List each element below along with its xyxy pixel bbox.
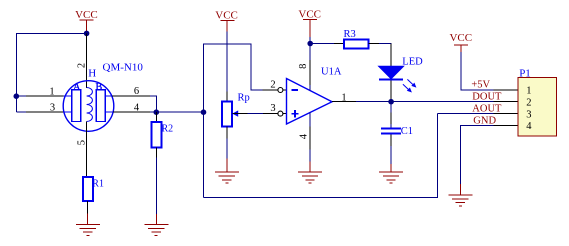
wire AOUT to P1: [438, 113, 494, 115]
resistor R3 left pin: [334, 43, 344, 45]
svg-text:AOUT: AOUT: [472, 104, 502, 115]
wire VCC to left column: [16, 33, 86, 112]
op-amp U1A pin 8: [309, 60, 311, 85]
sensor body circle: [63, 81, 114, 132]
sensor QM-N10 pin 5 (heater bottom): [86, 122, 88, 178]
svg-text:DOUT: DOUT: [472, 91, 502, 102]
ground (P1): [449, 195, 473, 206]
resistor R2: [152, 122, 162, 147]
pin 3 dot symbol: [278, 111, 283, 116]
resistor R2 bottom pin: [155, 148, 157, 158]
svg-text:+5V: +5V: [471, 80, 490, 91]
svg-text:VCC: VCC: [298, 8, 321, 20]
svg-text:R3: R3: [344, 29, 356, 40]
ground (R1): [76, 225, 100, 236]
potentiometer Rp wiper arrow: [232, 110, 238, 116]
svg-text:P1: P1: [519, 68, 531, 80]
resistor R1 bottom pin: [87, 201, 89, 214]
connector P1 pin 4 (GND): [494, 124, 519, 126]
resistor R1: [83, 177, 93, 201]
wire junction to comparator column: [156, 111, 203, 113]
connector P1 pin 3 (AOUT): [494, 113, 519, 115]
wire VCC to +5V pin: [461, 52, 494, 90]
LED body: [379, 66, 404, 79]
LED anode pin: [390, 44, 392, 67]
svg-text:U1A: U1A: [321, 67, 342, 78]
svg-text:A: A: [73, 82, 81, 93]
sensor electrode plate A: [72, 90, 81, 122]
wire pin6 to junction: [150, 96, 156, 112]
power port VCC (Rp): [215, 10, 238, 32]
svg-text:1: 1: [49, 86, 54, 97]
LED cathode bar: [379, 79, 403, 81]
svg-text:3: 3: [526, 109, 531, 120]
svg-text:C1: C1: [401, 126, 413, 137]
potentiometer Rp wiper pin: [233, 113, 248, 115]
wire wiper to op-amp: [248, 113, 263, 115]
svg-text:5: 5: [76, 140, 87, 145]
power port VCC (sensor, top-left): [75, 9, 98, 33]
resistor R3 right pin: [369, 43, 379, 45]
wire Rp to ground: [226, 139, 228, 159]
svg-text:4: 4: [134, 102, 140, 113]
ground stem (C1): [390, 164, 392, 172]
wire GND pin to ground: [461, 125, 494, 184]
LED cathode pin: [390, 81, 392, 102]
sensor QM-N10 pin 6: [105, 95, 113, 97]
wire pin4 to ground: [309, 150, 311, 162]
svg-text:VCC: VCC: [449, 32, 472, 44]
ground (op-amp): [298, 172, 322, 183]
op-amp U1A pin 1 (output): [332, 101, 356, 103]
node: junction VCC / R3 / pin 8: [307, 41, 313, 47]
wire R3 to LED: [379, 43, 392, 45]
wire VCC down to Rp: [226, 32, 228, 92]
wire C1 to ground: [390, 146, 392, 164]
minus sign: [292, 89, 299, 91]
svg-text:VCC: VCC: [75, 9, 98, 21]
node: VCC junction over sensor: [84, 31, 90, 37]
sensor QM-N10 pin 3: [26, 111, 64, 113]
resistor R3: [344, 40, 369, 49]
op-amp U1A pin 2 (inverting input): [263, 89, 279, 91]
svg-text:R2: R2: [162, 124, 174, 135]
sensor QM-N10 pin 4: [105, 111, 113, 113]
connector P1 pin 2 (DOUT): [494, 101, 519, 103]
potentiometer Rp bottom pin: [226, 127, 228, 139]
svg-text:6: 6: [134, 86, 139, 97]
power port VCC (op-amp): [298, 8, 321, 37]
capacitor C1 bottom pin: [390, 135, 392, 147]
wire horizontal feedback rail: [204, 44, 263, 198]
plus sign: [291, 113, 298, 115]
capacitor C1 top pin: [390, 112, 392, 124]
node: junction at left column: [201, 109, 207, 115]
node: junction at sensor pin 1: [13, 93, 19, 99]
sensor QM-N10 pin 2 (heater top): [86, 33, 88, 88]
svg-text:2: 2: [77, 63, 88, 68]
resistor R2 top pin: [155, 112, 157, 122]
ground stem (op-amp): [309, 162, 311, 173]
op-amp U1A pin 4: [309, 112, 311, 126]
ground stem (R1): [87, 214, 89, 225]
resistor R1 top pin: [86, 176, 88, 178]
svg-text:8: 8: [298, 64, 309, 69]
potentiometer Rp: [222, 102, 232, 127]
wire bottom rail (AOUT net): [204, 114, 438, 198]
LED emission arrow 1: [407, 79, 416, 87]
svg-text:R1: R1: [92, 178, 104, 189]
op-amp U1A body: [287, 79, 333, 125]
power port VCC (P1): [449, 32, 472, 52]
ground stem (Rp): [226, 159, 228, 173]
svg-text:H: H: [88, 67, 96, 79]
potentiometer Rp top pin: [226, 92, 228, 102]
svg-text:VCC: VCC: [215, 10, 238, 22]
wire output to P1: [356, 101, 494, 103]
ground stem (P1): [460, 184, 462, 195]
wire pin4 to junction: [150, 111, 156, 113]
wire stub to pin 3: [16, 111, 26, 113]
svg-text:4: 4: [526, 121, 532, 132]
op-amp U1A pin 3 (non-inverting input): [263, 113, 278, 115]
wire VCC to pin8 junction: [309, 37, 311, 60]
svg-text:GND: GND: [473, 115, 496, 126]
pin 2 dot symbol: [278, 88, 283, 93]
capacitor C1 plates: [381, 128, 401, 130]
node: junction output / LED / C1: [388, 99, 394, 105]
ground (C1): [379, 172, 403, 183]
svg-text:3: 3: [50, 103, 55, 114]
ground stem (R2): [155, 214, 157, 224]
ground (R2): [144, 224, 168, 235]
svg-text:4: 4: [298, 133, 309, 139]
svg-text:B: B: [95, 82, 102, 93]
wire VCC junction to R3: [310, 43, 334, 45]
node: junction sensor output: [154, 109, 160, 115]
svg-text:3: 3: [270, 103, 275, 114]
wire junction to C1: [390, 102, 392, 113]
svg-text:2: 2: [270, 79, 275, 90]
svg-text:QM-N10: QM-N10: [103, 61, 144, 73]
svg-text:LED: LED: [402, 57, 423, 68]
sensor QM-N10 pin 1: [26, 95, 64, 97]
wire R2 to ground: [155, 158, 157, 214]
wire stub to pin 1: [16, 95, 26, 97]
svg-text:2: 2: [526, 97, 531, 108]
svg-text:Rp: Rp: [238, 93, 250, 104]
connector P1 body: [518, 78, 557, 137]
connector P1 pin 1 (+5V): [494, 89, 519, 91]
LED emission arrow 2: [403, 84, 412, 92]
sensor electrode plate B: [96, 90, 105, 122]
svg-text:1: 1: [341, 92, 346, 103]
heater coil: [87, 88, 93, 122]
svg-text:1: 1: [526, 86, 531, 97]
ground (Rp): [215, 172, 239, 183]
